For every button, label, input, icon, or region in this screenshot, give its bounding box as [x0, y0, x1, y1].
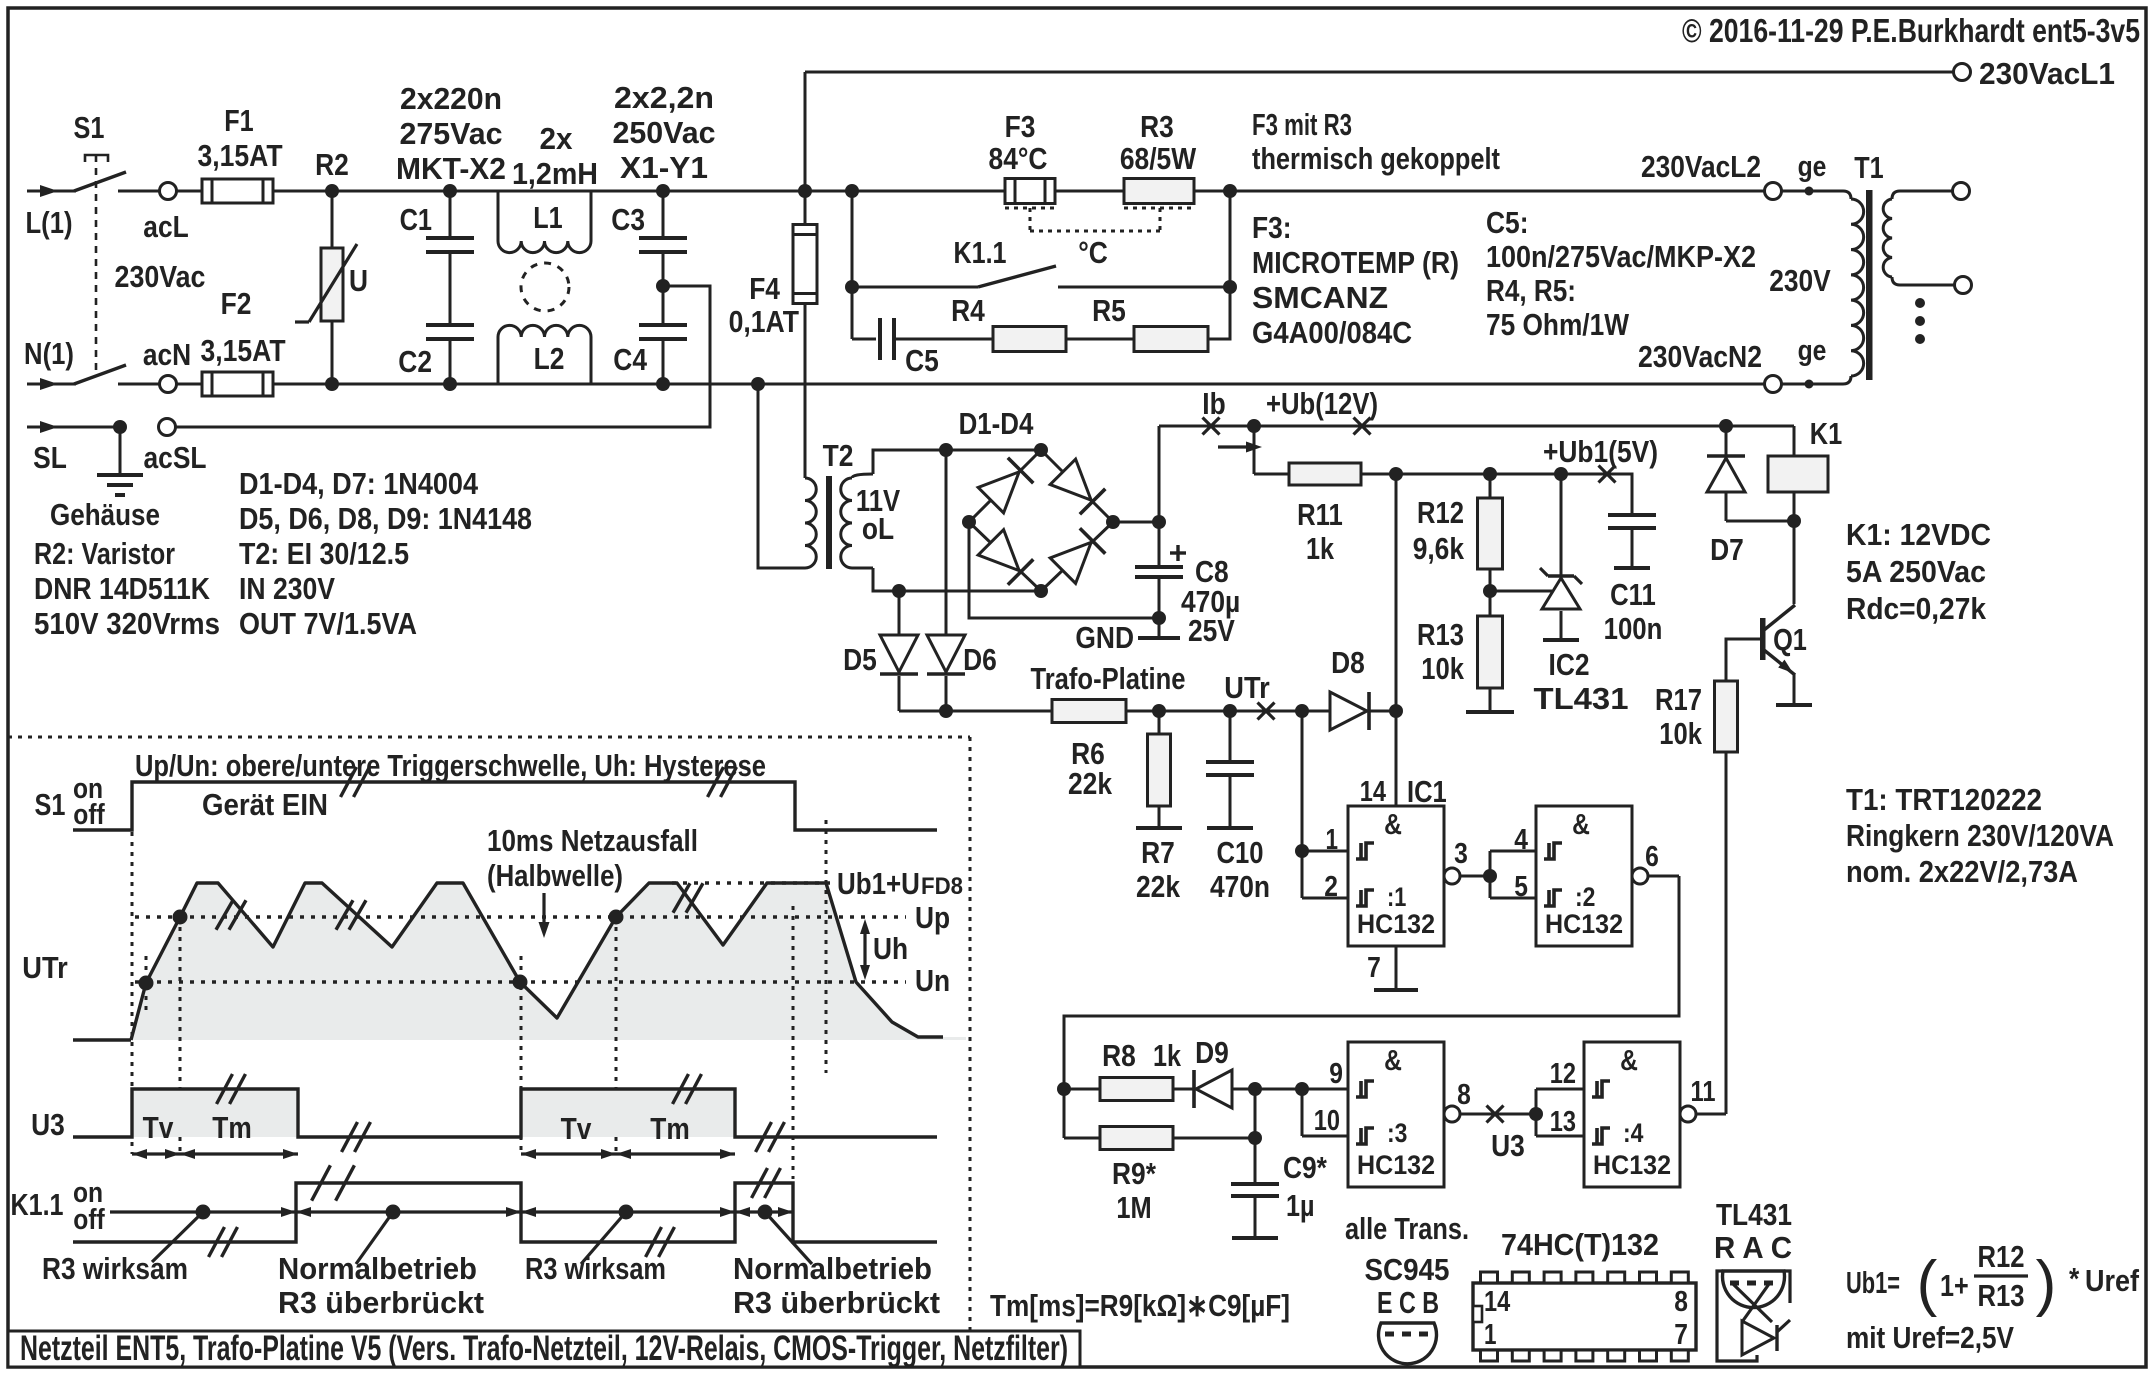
T1 core: [1866, 190, 1873, 380]
svg-text:74HC(T)132: 74HC(T)132: [1501, 1227, 1659, 1262]
svg-text:R13: R13: [1417, 617, 1464, 652]
svg-text:14: 14: [1360, 776, 1386, 808]
svg-text::2: :2: [1575, 882, 1595, 912]
svg-text:L2: L2: [534, 341, 565, 376]
svg-text:8: 8: [1674, 1286, 1688, 1318]
svg-text:&: &: [1572, 809, 1590, 841]
svg-text:14: 14: [1484, 1286, 1510, 1318]
IC1 pin7 ground: [1395, 946, 1398, 990]
T2 core: [826, 476, 832, 569]
svg-text:Ringkern 230V/120VA: Ringkern 230V/120VA: [1846, 818, 2114, 853]
svg-text:ge: ge: [1798, 151, 1827, 183]
svg-text:10ms Netzausfall: 10ms Netzausfall: [487, 823, 698, 858]
wire L to F1: [176, 190, 202, 193]
svg-text:230VacN2: 230VacN2: [1638, 339, 1762, 374]
marker Ib: [1203, 418, 1220, 435]
svg-text:C2: C2: [398, 344, 432, 379]
wire 230VacL1 top rail: [805, 71, 1954, 74]
svg-text:F3:: F3:: [1252, 210, 1292, 245]
title box: [8, 1331, 1080, 1367]
wire bridge- to GND: [969, 522, 1159, 618]
svg-text:3,15AT: 3,15AT: [200, 333, 285, 368]
svg-text:10: 10: [1314, 1105, 1340, 1137]
svg-text:E C B: E C B: [1377, 1285, 1439, 1320]
wire C3/C4 mid to SL: [175, 286, 710, 427]
svg-text:oL: oL: [862, 511, 894, 546]
svg-text:L1: L1: [533, 200, 562, 235]
ground earth symbol: [113, 420, 127, 434]
svg-text:mit Uref=2,5V: mit Uref=2,5V: [1846, 1320, 2014, 1355]
core symbol dashed circle: [521, 263, 569, 311]
svg-text:230V: 230V: [1769, 263, 1831, 298]
svg-text:11: 11: [1691, 1076, 1716, 1108]
svg-text:Tm[ms]=R9[kΩ]∗C9[µF]: Tm[ms]=R9[kΩ]∗C9[µF]: [990, 1288, 1290, 1323]
svg-text:C10: C10: [1217, 835, 1264, 870]
resistor R3: [1124, 179, 1194, 204]
svg-text:1M: 1M: [1116, 1190, 1151, 1225]
wire R5 up to L: [1208, 191, 1230, 339]
inductor L2: [450, 337, 498, 384]
svg-text:HC132: HC132: [1545, 909, 1623, 939]
svg-text:Gehäuse: Gehäuse: [50, 497, 160, 532]
svg-text:Ub1=: Ub1=: [1846, 1265, 1900, 1300]
transistor Q1: [1793, 521, 1796, 604]
svg-text:75 Ohm/1W: 75 Ohm/1W: [1486, 307, 1630, 342]
svg-text:R2: Varistor: R2: Varistor: [34, 536, 175, 571]
svg-text:R3: R3: [1140, 109, 1174, 144]
svg-text:C9*: C9*: [1283, 1150, 1328, 1185]
svg-text:C5: C5: [905, 343, 939, 378]
resistor R5: [1134, 327, 1208, 352]
svg-text:D1-D4, D7: 1N4004: D1-D4, D7: 1N4004: [239, 466, 479, 501]
transformer T1 secondary: [1892, 191, 1952, 199]
TO-92 SC945 outline: [1378, 1323, 1436, 1364]
svg-text:SC945: SC945: [1365, 1252, 1450, 1287]
NAND gate IC1.3: [1348, 1042, 1444, 1187]
node ge top: [1805, 187, 1814, 196]
terminal L(1) input arrow: [27, 190, 76, 193]
svg-text:0,1AT: 0,1AT: [729, 304, 799, 339]
svg-text:R3 überbrückt: R3 überbrückt: [278, 1285, 484, 1320]
svg-text:9: 9: [1329, 1058, 1343, 1090]
svg-text:SMCANZ: SMCANZ: [1252, 280, 1388, 315]
annotation arrows K1.1: [110, 1210, 296, 1213]
transformer T2 secondary: [852, 474, 873, 478]
svg-text:2x: 2x: [540, 121, 574, 156]
svg-text:1,2mH: 1,2mH: [512, 156, 598, 191]
resistor R11: [1247, 419, 1261, 433]
wire R4-R5: [1066, 338, 1134, 341]
svg-text:R11: R11: [1297, 497, 1343, 532]
svg-text:Tv: Tv: [561, 1111, 592, 1146]
svg-text:F3 mit R3: F3 mit R3: [1252, 107, 1352, 142]
terminal 230VacN2: [1765, 376, 1782, 393]
svg-text:): ): [2036, 1249, 2057, 1318]
svg-text:230VacL1: 230VacL1: [1979, 56, 2115, 91]
transformer T2 primary: [804, 475, 807, 478]
svg-text:HC132: HC132: [1357, 1150, 1435, 1180]
marker UTr: [1258, 703, 1275, 720]
svg-text:R17: R17: [1655, 682, 1702, 717]
svg-text:T2: EI 30/12.5: T2: EI 30/12.5: [239, 536, 409, 571]
wire K1.1 branch: [845, 184, 859, 198]
svg-text:off: off: [73, 799, 105, 831]
svg-text:100n: 100n: [1604, 611, 1663, 646]
capacitor C11: [1607, 474, 1632, 515]
fuse F2: [202, 372, 273, 396]
svg-text:Normalbetrieb: Normalbetrieb: [733, 1251, 932, 1286]
wire +Ub1 rail: [1389, 467, 1403, 481]
wire UTr rail: [899, 710, 1052, 713]
svg-text:OUT 7V/1.5VA: OUT 7V/1.5VA: [239, 606, 417, 641]
svg-text:Ib: Ib: [1202, 386, 1225, 421]
svg-text:1k: 1k: [1306, 531, 1335, 566]
svg-text:2x2,2n: 2x2,2n: [614, 80, 714, 115]
svg-text:TL431: TL431: [1716, 1197, 1792, 1232]
capacitor C5: [852, 338, 876, 341]
curve dots: [139, 976, 154, 991]
svg-text:U3: U3: [1491, 1128, 1525, 1163]
wire pins 4/5: [1489, 851, 1492, 898]
capacitor C4: [639, 323, 687, 327]
svg-text:100n/275Vac/MKP-X2: 100n/275Vac/MKP-X2: [1486, 239, 1756, 274]
svg-text:T2: T2: [823, 438, 854, 473]
svg-text:R12: R12: [1978, 1239, 2025, 1274]
resistor R12: [1489, 474, 1492, 498]
varistor R2: [325, 184, 339, 198]
wire feedback gate2 to R8/R9: [1064, 876, 1679, 1138]
svg-text:5A 250Vac: 5A 250Vac: [1846, 554, 1986, 589]
svg-text:22k: 22k: [1068, 766, 1113, 801]
TL431 internal diode: [1742, 1321, 1774, 1355]
svg-text:Rdc=0,27k: Rdc=0,27k: [1846, 591, 1987, 626]
wire pins 12/13: [1535, 1089, 1538, 1136]
svg-text:&: &: [1384, 1045, 1402, 1077]
svg-text:IN 230V: IN 230V: [239, 571, 335, 606]
level dotted Ub1: [672, 881, 830, 884]
node ge bottom: [1805, 380, 1814, 389]
svg-text:FD8: FD8: [921, 873, 963, 900]
svg-text:13: 13: [1550, 1106, 1576, 1138]
wire N branch to T2: [751, 377, 765, 391]
svg-text:C1: C1: [400, 202, 432, 237]
svg-text:MICROTEMP (R): MICROTEMP (R): [1252, 245, 1459, 280]
trace U3 pulses shading: [132, 1089, 298, 1137]
svg-text:HC132: HC132: [1593, 1150, 1671, 1180]
relay coil K1: [1793, 426, 1796, 456]
svg-text:TL431: TL431: [1534, 681, 1629, 716]
svg-text:°C: °C: [1078, 235, 1108, 270]
svg-text:R3 wirksam: R3 wirksam: [525, 1251, 666, 1286]
node acSL: [159, 419, 176, 436]
svg-text:Gerät EIN: Gerät EIN: [202, 787, 328, 822]
diode D9: [1173, 1088, 1196, 1091]
svg-text:acSL: acSL: [144, 440, 207, 475]
wire L main: [273, 190, 1005, 193]
svg-text:*: *: [2069, 1261, 2080, 1296]
relay contact K1.1: [852, 286, 978, 289]
svg-text:7: 7: [1674, 1319, 1688, 1351]
svg-text:F1: F1: [224, 103, 253, 138]
svg-text::1: :1: [1387, 882, 1406, 912]
dotted box timing diagram: [8, 736, 970, 739]
Ib current arrow: [1218, 445, 1252, 448]
svg-text:K1.1: K1.1: [11, 1187, 64, 1222]
svg-text:250Vac: 250Vac: [613, 115, 716, 150]
arrow Uh: [863, 927, 866, 972]
UTr curve shading: [131, 883, 966, 1040]
svg-text:4: 4: [1514, 824, 1528, 856]
svg-text:Uh: Uh: [873, 931, 908, 966]
wire pins 9/10: [1295, 1082, 1309, 1096]
wire bridge+ to C8: [1113, 521, 1159, 524]
svg-text:UTr: UTr: [1224, 670, 1269, 705]
svg-text:F4: F4: [749, 271, 780, 306]
svg-text:Normalbetrieb: Normalbetrieb: [278, 1251, 477, 1286]
wire T2 sec top to bridge: [873, 450, 1041, 474]
svg-text:1k: 1k: [1153, 1038, 1182, 1073]
svg-text:R12: R12: [1417, 495, 1464, 530]
svg-text:D7: D7: [1710, 532, 1744, 567]
svg-text:R8: R8: [1102, 1038, 1136, 1073]
svg-text:D9: D9: [1195, 1035, 1229, 1070]
svg-text:C11: C11: [1610, 577, 1656, 612]
svg-text:R3 wirksam: R3 wirksam: [42, 1251, 188, 1286]
svg-text:D8: D8: [1331, 645, 1365, 680]
svg-text:R7: R7: [1141, 835, 1175, 870]
svg-text:acN: acN: [143, 337, 191, 372]
svg-text:R2: R2: [315, 147, 349, 182]
svg-text:Tm: Tm: [212, 1110, 252, 1145]
svg-text:2x220n: 2x220n: [400, 81, 502, 116]
svg-text:R4, R5:: R4, R5:: [1486, 273, 1576, 308]
terminal SL input arrow: [27, 426, 120, 429]
svg-text:S1: S1: [74, 110, 105, 145]
svg-text:K1: 12VDC: K1: 12VDC: [1846, 517, 1991, 552]
svg-text:T1: T1: [1854, 150, 1883, 185]
wire N to F2: [176, 383, 202, 386]
svg-text:Ub1+U: Ub1+U: [837, 866, 920, 901]
svg-text:1µ: 1µ: [1286, 1188, 1315, 1223]
NAND gate IC1.1: [1348, 806, 1444, 946]
svg-text:2: 2: [1324, 871, 1338, 903]
capacitor C3: [656, 184, 670, 198]
svg-text:275Vac: 275Vac: [400, 116, 503, 151]
diode D6: [939, 443, 953, 457]
svg-text:3: 3: [1454, 838, 1468, 870]
resistor R9: [1064, 1137, 1100, 1140]
svg-text:S1: S1: [35, 787, 66, 822]
dimension arrows Tv/Tm: [132, 1152, 180, 1155]
leader lines: [152, 1212, 203, 1262]
winding dots: [1915, 298, 1925, 308]
svg-text:Trafo-Platine: Trafo-Platine: [1031, 661, 1186, 696]
resistor R4: [993, 327, 1066, 352]
plus sign C8: [1170, 551, 1186, 554]
svg-text:Q1: Q1: [1773, 622, 1807, 657]
capacitor C2: [426, 323, 474, 327]
svg-text:Uref: Uref: [2085, 1263, 2140, 1298]
wire IC1 Vcc: [1395, 474, 1398, 806]
fuse F1: [202, 179, 273, 203]
svg-text:470n: 470n: [1210, 869, 1270, 904]
svg-text:ge: ge: [1798, 335, 1827, 367]
svg-text:C4: C4: [613, 342, 647, 377]
marker +Ub: [1354, 418, 1371, 435]
svg-text:K1: K1: [1810, 416, 1842, 451]
terminal 230VacL2: [1765, 183, 1782, 200]
svg-text:6: 6: [1645, 841, 1659, 873]
svg-text:1: 1: [1484, 1319, 1497, 1351]
wire N main: [273, 383, 1765, 386]
svg-text:GND: GND: [1075, 620, 1134, 655]
svg-text:3,15AT: 3,15AT: [197, 138, 282, 173]
diode D5: [892, 584, 906, 598]
svg-text:510V 320Vrms: 510V 320Vrms: [34, 606, 220, 641]
svg-text:HC132: HC132: [1357, 909, 1435, 939]
wire +Ub(12V) rail: [1159, 425, 1794, 428]
capacitor C10: [1223, 704, 1237, 718]
svg-text:10k: 10k: [1421, 651, 1464, 686]
shunt regulator IC2 TL431: [1560, 474, 1563, 576]
resistor R7: [1152, 704, 1166, 718]
svg-text:C5:: C5:: [1486, 205, 1529, 240]
svg-text:Un: Un: [915, 963, 950, 998]
fuse F3 thermal: [1005, 179, 1055, 204]
svg-text:R3 überbrückt: R3 überbrückt: [733, 1285, 940, 1320]
diode D8: [1295, 704, 1309, 718]
svg-text:+Ub(12V): +Ub(12V): [1266, 386, 1378, 421]
inductor L1: [450, 191, 498, 241]
svg-text:IC1: IC1: [1407, 774, 1447, 809]
svg-text:R A C: R A C: [1714, 1230, 1792, 1265]
svg-text:25V: 25V: [1188, 613, 1235, 648]
svg-text:9,6k: 9,6k: [1413, 531, 1465, 566]
svg-text:alle Trans.: alle Trans.: [1345, 1211, 1469, 1246]
svg-text:R5: R5: [1092, 293, 1126, 328]
svg-text:Netzteil ENT5, Trafo-Platine V: Netzteil ENT5, Trafo-Platine V5 (Vers. T…: [20, 1329, 1068, 1368]
svg-text:D5, D6, D8, D9: 1N4148: D5, D6, D8, D9: 1N4148: [239, 501, 532, 536]
gate4 output pin11: [1680, 1106, 1696, 1122]
switch S1 pole N: [74, 365, 126, 384]
svg-text:T1: TRT120222: T1: TRT120222: [1846, 782, 2042, 817]
svg-text:R13: R13: [1978, 1278, 2025, 1313]
svg-text:F2: F2: [221, 286, 252, 321]
resistor R8: [1064, 1088, 1100, 1091]
wire T2 sec bottom to bridge: [873, 568, 1041, 591]
switch S1 link dashed: [95, 155, 98, 372]
transformer T1 primary: [1781, 191, 1851, 199]
svg-text:G4A00/084C: G4A00/084C: [1252, 315, 1412, 350]
svg-text:R9*: R9*: [1112, 1156, 1157, 1191]
TL431 internal legs: [1717, 1271, 1757, 1361]
svg-text:D6: D6: [963, 642, 997, 677]
gate3 output pin8 net U3: [1444, 1106, 1460, 1122]
thermal coupling dotted: [1005, 207, 1055, 210]
node acN: [160, 376, 177, 393]
capacitor C8: [1158, 522, 1161, 567]
svg-text:thermisch gekoppelt: thermisch gekoppelt: [1252, 141, 1500, 176]
svg-text:8: 8: [1457, 1079, 1471, 1111]
switch S1 pole L: [74, 172, 126, 191]
svg-text:1: 1: [1326, 824, 1339, 856]
resistor R6: [1052, 700, 1126, 723]
svg-text:22k: 22k: [1136, 869, 1181, 904]
svg-text:K1.1: K1.1: [954, 235, 1007, 270]
svg-text:+Ub1(5V): +Ub1(5V): [1543, 434, 1658, 469]
svg-text:5: 5: [1514, 871, 1528, 903]
svg-text:230Vac: 230Vac: [115, 259, 206, 294]
svg-text:off: off: [73, 1204, 105, 1236]
threshold dotted Un: [135, 980, 906, 983]
svg-text:Tv: Tv: [143, 1110, 174, 1145]
svg-text::4: :4: [1623, 1118, 1643, 1148]
svg-text:U: U: [349, 263, 368, 298]
svg-text:230VacL2: 230VacL2: [1641, 149, 1761, 184]
svg-text:F3: F3: [1005, 109, 1036, 144]
svg-text:MKT-X2: MKT-X2: [396, 151, 506, 186]
svg-text:(Halbwelle): (Halbwelle): [487, 858, 623, 893]
svg-text:© 2016-11-29 P.E.Burkhardt ent: © 2016-11-29 P.E.Burkhardt ent5-3v5: [1682, 12, 2140, 49]
svg-text:68/5W: 68/5W: [1120, 141, 1197, 176]
svg-text:L(1): L(1): [26, 205, 73, 240]
svg-text::3: :3: [1387, 1118, 1407, 1148]
terminal 230VacL1: [1954, 64, 1971, 81]
resistor R17: [1726, 639, 1762, 681]
svg-text:Up/Un: obere/untere Triggersch: Up/Un: obere/untere Triggerschwelle, Uh:…: [135, 748, 766, 783]
svg-text:&: &: [1620, 1045, 1638, 1077]
svg-text:UTr: UTr: [22, 950, 67, 985]
wire IC1 pins 1/2: [1301, 711, 1304, 898]
node acL: [160, 183, 177, 200]
svg-text:12: 12: [1550, 1058, 1576, 1090]
svg-text:84°C: 84°C: [989, 141, 1048, 176]
wire F3-R3: [1055, 190, 1124, 193]
svg-text:X1-Y1: X1-Y1: [620, 150, 708, 185]
capacitor C9: [1248, 1082, 1262, 1096]
gate2 output pin6: [1632, 868, 1648, 884]
NAND gate IC1.2: [1536, 806, 1632, 946]
svg-text:IC2: IC2: [1549, 647, 1590, 682]
terminal N(1) input arrow: [27, 383, 76, 386]
threshold dotted Up: [135, 915, 906, 918]
svg-text:U3: U3: [31, 1107, 65, 1142]
NAND gate IC1.4: [1584, 1042, 1680, 1187]
svg-text:C3: C3: [611, 202, 645, 237]
svg-text:D1-D4: D1-D4: [959, 406, 1034, 441]
fuse F4: [798, 184, 812, 198]
svg-text:Tm: Tm: [650, 1111, 690, 1146]
dotted verticals: [131, 832, 134, 1154]
svg-text:7: 7: [1367, 952, 1381, 984]
svg-text:D5: D5: [843, 642, 877, 677]
gate1 output pin3: [1444, 868, 1460, 884]
svg-text:Up: Up: [915, 900, 950, 935]
wire L to 230VacL2: [1194, 190, 1765, 193]
svg-text:10k: 10k: [1659, 716, 1702, 751]
diode D7: [1719, 419, 1733, 433]
svg-text:1+: 1+: [1940, 1268, 1969, 1303]
svg-text:nom. 2x22V/2,73A: nom. 2x22V/2,73A: [1846, 854, 2078, 889]
svg-text:N(1): N(1): [24, 336, 74, 371]
svg-text:R4: R4: [951, 293, 985, 328]
svg-text:DNR 14D511K: DNR 14D511K: [34, 571, 211, 606]
capacitor C1: [443, 184, 457, 198]
svg-text:(: (: [1917, 1249, 1938, 1318]
svg-text:SL: SL: [33, 440, 67, 475]
svg-text:&: &: [1384, 809, 1402, 841]
svg-text:acL: acL: [143, 209, 188, 244]
